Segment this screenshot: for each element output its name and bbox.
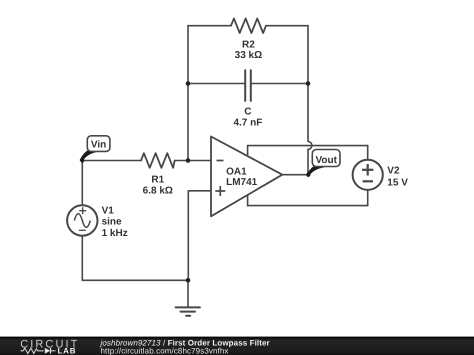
op-amp OA1 triangle [211, 137, 282, 217]
CircuitLab logo resistor zigzag [21, 348, 44, 353]
node Vin flag leader [80, 151, 97, 162]
wire V2 bottom stub [367, 190, 369, 206]
svg-text:4.7 nF: 4.7 nF [233, 118, 262, 129]
node Vin flag [87, 136, 110, 152]
svg-text:LM741: LM741 [226, 177, 258, 188]
wire left vertical feedback [187, 26, 189, 161]
svg-text:15 V: 15 V [387, 177, 408, 188]
svg-text:33 kΩ: 33 kΩ [235, 50, 262, 61]
CircuitLab logo diode [45, 348, 50, 354]
wire supply rectangle bottom edge [248, 205, 368, 207]
node Vout dot [306, 173, 310, 177]
wire R2 to top-right corner [266, 25, 308, 27]
wire V2 top stub [367, 146, 369, 160]
svg-text:http://circuitlab.com/c8hc79s3: http://circuitlab.com/c8hc79s3vnfhx [101, 346, 229, 355]
svg-text:6.8 kΩ: 6.8 kΩ [143, 186, 173, 197]
resistor R2 [231, 18, 266, 33]
V1 minus sign [79, 229, 86, 231]
op-amp plus input symbol [215, 186, 225, 196]
capacitor C label [233, 106, 262, 128]
V2 minus sign [363, 180, 373, 182]
wire supply rectangle left edge [247, 146, 249, 206]
svg-text:1 kHz: 1 kHz [102, 228, 128, 239]
ground wire stub [187, 280, 189, 306]
svg-text:Vin: Vin [91, 139, 106, 150]
wire right vertical feedback with hop [308, 26, 312, 175]
wire C row left [188, 83, 245, 85]
svg-text:R2: R2 [242, 39, 255, 50]
wire Vin node to R1 [82, 160, 141, 162]
junction C left [186, 81, 191, 86]
svg-text:sine: sine [102, 217, 122, 228]
wire Vin node down to V1 [81, 161, 83, 206]
wire V1 bottom to ground row [82, 236, 188, 281]
V1 plus sign [79, 207, 86, 214]
wire supply rectangle top edge [248, 145, 368, 147]
junction R1 node [186, 158, 191, 163]
node Vin dot [80, 158, 84, 162]
svg-text:Vout: Vout [315, 155, 337, 166]
V2 plus sign [362, 164, 373, 175]
wire op-amp output to Vout node [282, 174, 308, 176]
wire top-left to R2 [188, 25, 231, 27]
svg-text:OA1: OA1 [226, 166, 247, 177]
svg-text:C: C [244, 106, 251, 117]
svg-text:LAB: LAB [58, 347, 77, 355]
wire op-amp noninverting input to ground node [188, 191, 211, 280]
resistor R1 label [143, 174, 173, 196]
node Vout flag [312, 150, 340, 167]
resistor R2 label [235, 39, 262, 61]
wire R1 to op-amp inverting input [175, 160, 211, 162]
svg-text:V2: V2 [387, 166, 400, 177]
source V2 [353, 160, 383, 190]
V2 label [387, 166, 408, 189]
node Vout flag leader [307, 167, 325, 177]
junction ground node [186, 278, 191, 283]
op-amp label OA1 LM741 [226, 166, 258, 188]
wire C row right [251, 83, 308, 85]
svg-text:V1: V1 [102, 206, 115, 217]
svg-text:R1: R1 [151, 174, 164, 185]
op-amp minus input symbol [217, 160, 224, 162]
V1 label [102, 206, 128, 239]
capacitor C [245, 70, 251, 101]
V1 sine wave [74, 214, 90, 228]
ground symbol [176, 307, 200, 315]
resistor R1 [141, 153, 175, 168]
source V1 [67, 205, 97, 235]
junction C right [306, 81, 311, 86]
